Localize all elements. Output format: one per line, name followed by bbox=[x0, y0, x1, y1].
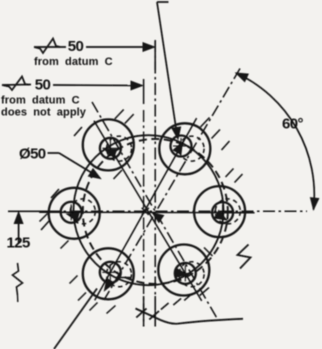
svg-text:does not apply: does not apply bbox=[1, 107, 87, 119]
hole TR: tolerance zone circle bbox=[159, 123, 210, 174]
svg-text:50: 50 bbox=[35, 77, 51, 94]
break cross stroke on actual axis bbox=[136, 309, 146, 318]
hole BL: tolerance zone circle bbox=[83, 248, 134, 299]
dim: 50 from datum C (upper) line bbox=[34, 46, 66, 48]
120-300 deg centerline bbox=[92, 102, 218, 320]
hole L: tolerance zone circle bbox=[49, 188, 100, 239]
spoke line through actual holes L-R bbox=[39, 211, 254, 214]
hole BR: tolerance zone circle bbox=[158, 245, 209, 296]
hole TL: actual hole (solid) bbox=[100, 138, 121, 159]
svg-text:from datum C: from datum C bbox=[1, 95, 80, 107]
bottom break line through both axes bbox=[136, 309, 244, 324]
break zigzag right of hole R bbox=[238, 245, 251, 269]
hole TL: actual centre cross bbox=[102, 147, 118, 149]
vertical centerline (pattern axis from datum C) bbox=[154, 40, 156, 327]
hole L: hole at theoretical position (dashed) bbox=[70, 199, 95, 224]
solid lower ends of both axes bbox=[143, 296, 145, 327]
hole TL: tolerance zone circle bbox=[83, 119, 134, 170]
hole R: tolerance zone circle bbox=[194, 186, 245, 237]
dim lower: arrowhead bbox=[131, 81, 143, 90]
spoke arrowhead at actual hole BL bbox=[105, 279, 115, 291]
dim lower: extension line bbox=[143, 79, 145, 104]
hole BL: actual centre cross bbox=[102, 271, 118, 273]
theoretical bolt circle (dashed, diam 50) bbox=[83, 139, 228, 284]
dim 125: vertical line with up arrow bbox=[18, 214, 20, 243]
short tick right of hole BL bbox=[116, 277, 131, 279]
dim 125: extension line to pattern centre bbox=[8, 210, 48, 212]
svg-text:from datum C: from datum C bbox=[34, 56, 113, 68]
hole TL: hole at theoretical position (dashed) bbox=[107, 136, 132, 161]
spoke line through actual holes TR-BL bbox=[95, 118, 197, 300]
hole TR: hole at theoretical position (dashed) bbox=[179, 136, 204, 161]
spoke arrowhead at actual hole TL bbox=[105, 149, 117, 157]
spoke arrowhead at actual hole TR bbox=[173, 142, 182, 154]
hatch ticks lower right bbox=[161, 303, 169, 310]
dim: 50 from datum C does not apply (lower) line bbox=[2, 84, 31, 87]
diam 50 leader bbox=[48, 152, 60, 154]
svg-text:125: 125 bbox=[7, 235, 30, 252]
actual pattern circle (solid, displaced) bbox=[74, 135, 224, 285]
dim 60deg: arc bbox=[236, 73, 314, 210]
hole BR: actual centre cross bbox=[177, 272, 193, 274]
actual pattern axis (dash-dot, does-not-apply axis) bbox=[143, 110, 145, 327]
60-240 deg centerline bbox=[104, 69, 240, 301]
top leader to hole TR (from cropped callout) bbox=[157, 1, 169, 3]
dim 60deg: arrowheads bbox=[236, 73, 248, 82]
bottom-left leader to hole BL (from cropped callout) bbox=[54, 289, 97, 349]
dim lower: break zigzag bbox=[2, 77, 29, 91]
hole R: actual hole (solid) bbox=[212, 202, 233, 223]
dim upper: break zigzag bbox=[34, 39, 60, 54]
spoke arrowhead at actual hole L bbox=[67, 213, 79, 221]
horizontal centerline (datum axis, 0-180 deg) bbox=[48, 210, 307, 212]
spoke arrowhead at actual hole BR bbox=[176, 269, 188, 278]
hole BR: hole at theoretical position (dashed) bbox=[179, 262, 204, 287]
witness tick marks (45 deg) bbox=[74, 127, 82, 136]
hole R: actual centre cross bbox=[215, 212, 231, 214]
hole TR: actual hole (solid) bbox=[171, 136, 192, 157]
hole BL: hole at theoretical position (dashed) bbox=[107, 262, 132, 287]
spoke arrowhead at actual hole R bbox=[215, 211, 227, 221]
centre: arrowhead at theoretical centre bbox=[153, 213, 164, 222]
svg-text:60°: 60° bbox=[282, 116, 303, 133]
dim 125: break zigzag below bbox=[13, 263, 23, 295]
svg-text:50: 50 bbox=[68, 38, 84, 55]
hole L: actual centre cross bbox=[63, 211, 79, 213]
hole BR: actual hole (solid) bbox=[175, 263, 196, 284]
spoke line through actual holes TL-BR bbox=[94, 121, 202, 301]
dim upper: arrowhead at pattern axis bbox=[143, 43, 155, 52]
hole TR: actual centre cross bbox=[173, 145, 189, 147]
svg-text:Ø50: Ø50 bbox=[19, 146, 46, 163]
hole L: actual hole (solid) bbox=[61, 202, 82, 223]
centre: actual pattern centre X marker bbox=[142, 208, 149, 215]
hole R: hole at theoretical position (dashed) bbox=[215, 199, 240, 224]
vertical centerline: top solid segment at dimension arrow bbox=[154, 41, 156, 70]
break cross stroke on datum axis bbox=[149, 311, 159, 320]
hole BL: actual hole (solid) bbox=[100, 262, 121, 283]
